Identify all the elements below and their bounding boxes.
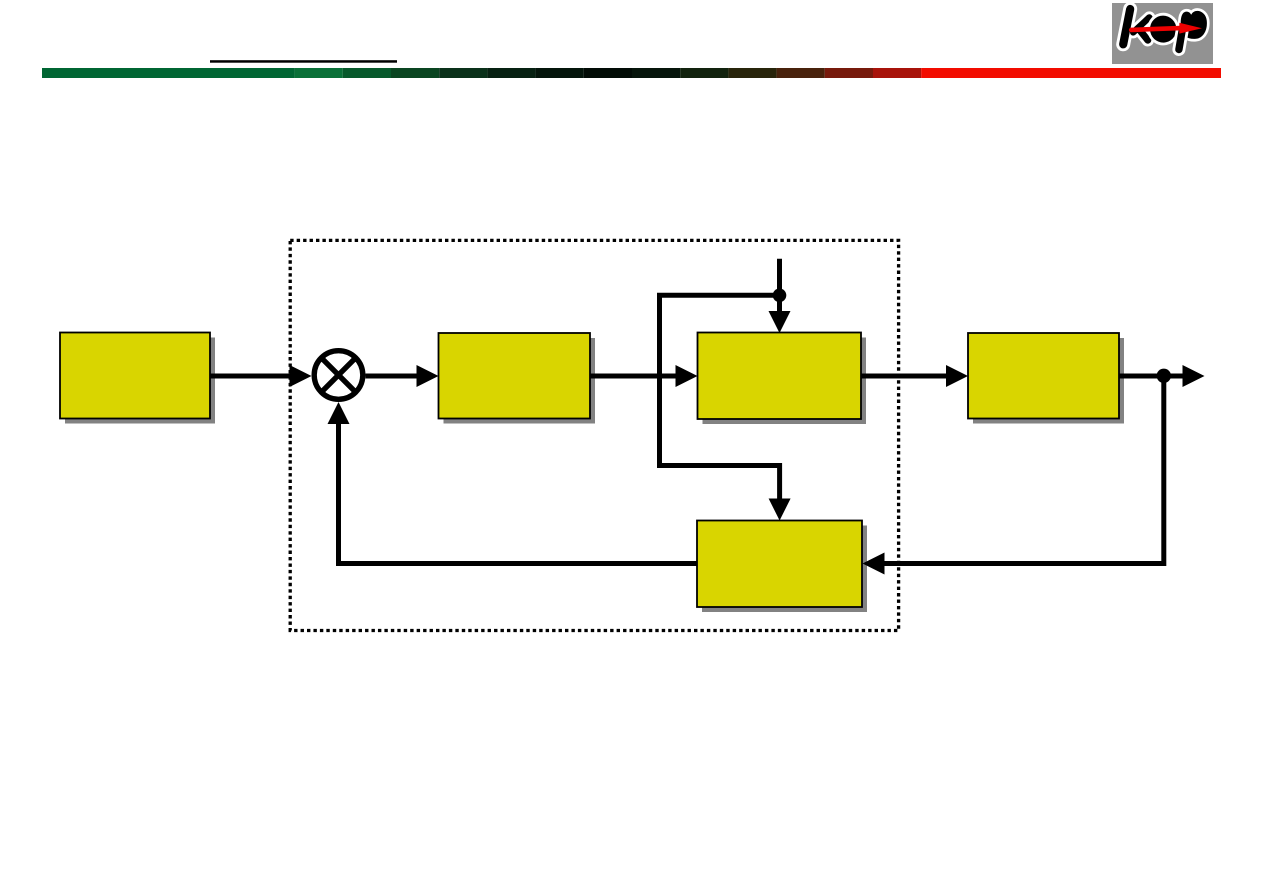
logo red arrow (1131, 28, 1180, 30)
block B (439, 333, 591, 419)
top input junction dot (773, 289, 787, 303)
arrowhead into E top (769, 499, 791, 521)
title underline (210, 60, 397, 63)
wire A to summing junction (210, 374, 291, 379)
header gradient bar (42, 68, 1221, 78)
summing junction circle (314, 351, 363, 400)
logo letter p stem (1179, 32, 1182, 50)
top input stub wire (777, 259, 782, 313)
block B shadow (444, 338, 596, 424)
logo letter p bowl (1181, 11, 1207, 39)
block E shadow (702, 526, 867, 613)
block C (698, 333, 862, 420)
block E (697, 521, 862, 608)
block D (968, 333, 1119, 419)
block A (60, 333, 210, 419)
arrowhead into summing junction bottom (328, 402, 350, 424)
feedback wire from output junction to E (884, 376, 1164, 564)
arrowhead into B (417, 365, 439, 387)
logo letter k (1123, 9, 1149, 44)
wire B to C (590, 374, 677, 379)
branch wire from top input to E (660, 295, 780, 500)
wire summing junction to B (366, 374, 419, 379)
wire D to output (1119, 374, 1184, 379)
summing junction X (320, 357, 356, 393)
block C shadow (703, 338, 867, 425)
arrowhead into C (676, 365, 698, 387)
output arrowhead (1183, 365, 1205, 387)
arrowhead into D (946, 365, 968, 387)
output junction dot (1157, 369, 1171, 383)
wire E to summing junction (339, 422, 698, 564)
wire C to D (861, 374, 948, 379)
arrowhead into C top (769, 311, 791, 333)
arrowhead into summing junction (290, 365, 312, 387)
dotted boundary box (290, 240, 898, 630)
company logo plate (1112, 3, 1213, 64)
arrowhead into E right (863, 553, 885, 575)
block D shadow (973, 338, 1124, 424)
block A shadow (65, 338, 215, 424)
logo letter e blob (1147, 13, 1178, 45)
